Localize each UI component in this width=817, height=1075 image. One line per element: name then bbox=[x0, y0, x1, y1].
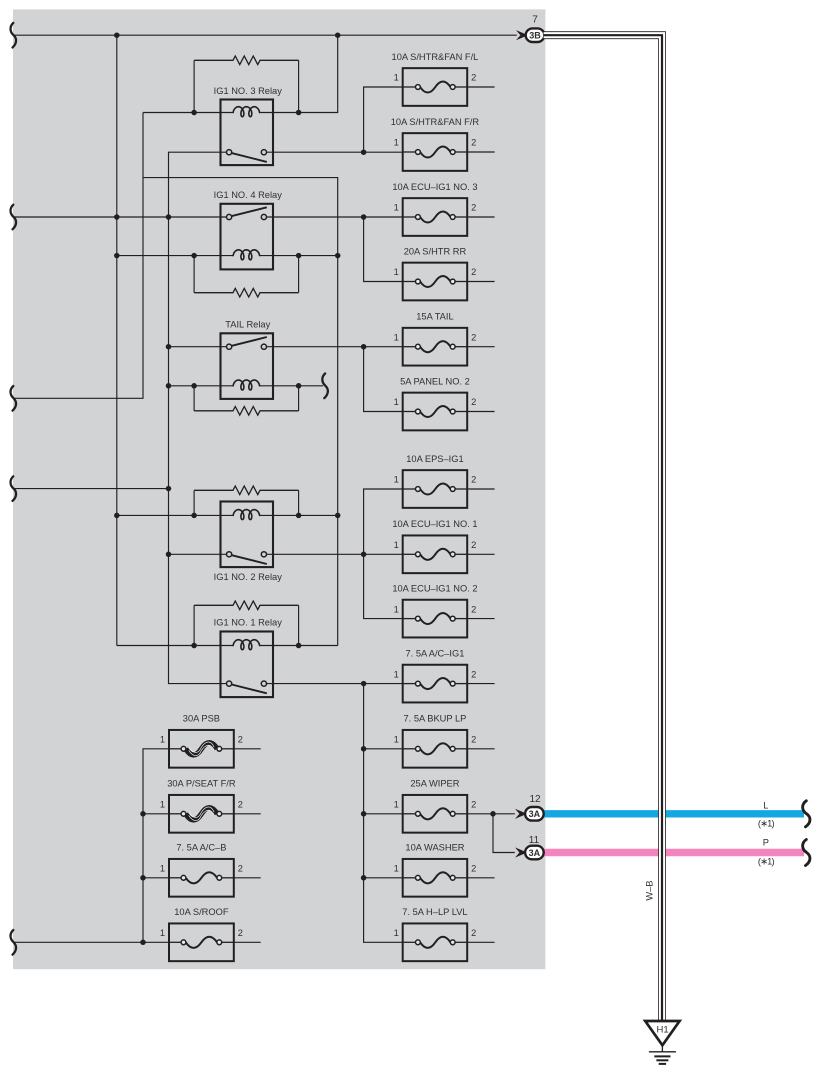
svg-text:1: 1 bbox=[394, 604, 399, 614]
break symbol TAIL coil right bbox=[322, 374, 328, 399]
wire fuse branch r3-r4 vertical bbox=[364, 217, 403, 282]
wire fuse branch r5-r6 vertical bbox=[364, 347, 403, 412]
junction relay1 coil row / resistor left leg bbox=[191, 643, 197, 649]
wire P (pink) from connector 11 bbox=[543, 849, 804, 856]
connector 3A pin 11 bbox=[515, 835, 544, 859]
svg-text:P: P bbox=[763, 837, 769, 847]
svg-text:1: 1 bbox=[160, 928, 165, 938]
junction bus3 / relay4 switch row bbox=[166, 214, 172, 220]
junction bus1 / relay4 coil row bbox=[114, 253, 120, 259]
svg-text:2: 2 bbox=[471, 604, 476, 614]
wire relay2 coil row bbox=[117, 514, 338, 516]
label (*1) under L bbox=[758, 819, 775, 829]
svg-text:2: 2 bbox=[471, 73, 476, 83]
svg-text:11: 11 bbox=[529, 835, 540, 846]
wire fuse pin1 stubs right column bbox=[364, 749, 403, 878]
fuse 7. 5A A/C–B bbox=[160, 843, 243, 897]
svg-text:7. 5A A/C–B: 7. 5A A/C–B bbox=[176, 843, 226, 853]
resistor above IG1 NO.3 relay bbox=[194, 56, 299, 113]
fuse 10A WASHER bbox=[394, 843, 477, 897]
junction relay4 switch row / fuse r3-r4 branch bbox=[361, 214, 367, 220]
wire fuse bus r10-r14 vertical bbox=[364, 684, 403, 943]
fuse 10A S/HTR&FAN F/R bbox=[391, 117, 480, 171]
junction TAIL switch row / fuse r5-r6 branch bbox=[361, 344, 367, 350]
wire TAIL switch row bbox=[169, 346, 403, 348]
fuse 20A S/HTR RR bbox=[394, 246, 477, 300]
wire relay4 switch row to fuses bbox=[266, 216, 402, 218]
svg-text:3A: 3A bbox=[529, 848, 541, 858]
wire left fuse bus vertical bbox=[143, 749, 169, 943]
wire bus2 from break to IG1 NO.3 relay coil row bbox=[14, 113, 143, 399]
wire relay2 resistor legs bbox=[194, 490, 299, 515]
junction relay4 coil row / resistor left leg bbox=[191, 253, 197, 259]
wire branch to connector 11 bbox=[493, 814, 515, 853]
svg-text:1: 1 bbox=[394, 735, 399, 745]
relay IG1 NO. 3 Relay bbox=[214, 86, 283, 165]
junction relay2 coil row / resistor right leg bbox=[296, 513, 302, 519]
svg-text:10A S/HTR&FAN F/L: 10A S/HTR&FAN F/L bbox=[392, 52, 479, 62]
fuse 7. 5A BKUP LP bbox=[394, 714, 477, 768]
fuse 30A P/SEAT F/R bbox=[160, 779, 243, 833]
svg-text:IG1 NO. 2 Relay: IG1 NO. 2 Relay bbox=[214, 572, 283, 582]
fuse 10A ECU–IG1 NO. 2 bbox=[392, 583, 477, 637]
fuse 7. 5A H–LP LVL bbox=[394, 907, 477, 961]
junction TAIL coil row / resistor right leg bbox=[296, 383, 302, 389]
break symbol bottom-left feed bbox=[11, 930, 17, 955]
fuse 10A EPS–IG1 bbox=[394, 454, 477, 508]
svg-text:(∗1): (∗1) bbox=[758, 819, 775, 829]
svg-text:1: 1 bbox=[160, 735, 165, 745]
wire bus3 vertical bbox=[169, 152, 227, 683]
connector 3A pin 12 bbox=[515, 794, 544, 821]
label W-B bbox=[644, 881, 654, 901]
junction relay3 coil row / resistor left leg bbox=[191, 110, 197, 116]
svg-text:1: 1 bbox=[394, 73, 399, 83]
svg-text:2: 2 bbox=[471, 540, 476, 550]
wire TAIL resistor legs bbox=[194, 386, 299, 411]
svg-text:30A PSB: 30A PSB bbox=[183, 714, 220, 724]
fuse 15A TAIL bbox=[394, 312, 477, 366]
wire branch y177.6 to center vertical bbox=[143, 178, 338, 646]
wire relay1 switch row bbox=[266, 683, 402, 685]
junction bus1 / relay2 coil row bbox=[114, 513, 120, 519]
svg-text:1: 1 bbox=[394, 864, 399, 874]
junction bus3 / relay2 switch row bbox=[166, 552, 172, 558]
junction fuse bus / WASHER bbox=[361, 875, 367, 881]
svg-text:2: 2 bbox=[471, 669, 476, 679]
label P bbox=[763, 837, 769, 847]
junction relay4 coil row / resistor right leg bbox=[296, 253, 302, 259]
svg-text:10A EPS–IG1: 10A EPS–IG1 bbox=[406, 454, 463, 464]
svg-text:10A S/ROOF: 10A S/ROOF bbox=[174, 907, 229, 917]
wire bus1 vertical bbox=[116, 35, 118, 645]
svg-text:1: 1 bbox=[394, 267, 399, 277]
junction center vertical / relay4 coil row bbox=[335, 253, 341, 259]
fuse 10A ECU–IG1 NO. 1 bbox=[392, 519, 477, 573]
svg-text:10A S/HTR&FAN F/R: 10A S/HTR&FAN F/R bbox=[391, 117, 480, 127]
svg-text:30A P/SEAT F/R: 30A P/SEAT F/R bbox=[167, 779, 236, 789]
wire bottom feed from break to 10A S/ROOF bbox=[14, 941, 169, 943]
junction bus1 / relay4 switch row bbox=[114, 214, 120, 220]
svg-text:15A TAIL: 15A TAIL bbox=[416, 312, 453, 322]
svg-text:3B: 3B bbox=[529, 31, 541, 41]
svg-text:IG1 NO. 3 Relay: IG1 NO. 3 Relay bbox=[214, 86, 283, 96]
svg-text:1: 1 bbox=[394, 475, 399, 485]
break symbol left relay2 feed bbox=[11, 476, 17, 501]
wire relay3 switch row to fuses bbox=[266, 151, 402, 153]
svg-text:7: 7 bbox=[532, 15, 538, 26]
wire fuse branch r7-r9 vertical bbox=[364, 489, 403, 619]
junction bus3 / break feed bbox=[166, 486, 172, 492]
junction block background bbox=[13, 9, 545, 969]
fuse 25A WIPER bbox=[394, 779, 477, 833]
svg-text:W–B: W–B bbox=[644, 881, 654, 901]
wire L (blue) from connector 12 bbox=[543, 810, 804, 817]
wire relay2 switch row bbox=[169, 553, 403, 555]
resistor below TAIL relay bbox=[194, 407, 299, 416]
junction center vertical / relay2 coil row bbox=[335, 513, 341, 519]
svg-text:2: 2 bbox=[471, 267, 476, 277]
junction fuse bus / WIPER bbox=[361, 811, 367, 817]
svg-text:1: 1 bbox=[394, 397, 399, 407]
fuse 30A PSB bbox=[160, 714, 243, 768]
svg-text:2: 2 bbox=[238, 864, 243, 874]
svg-text:7. 5A H–LP LVL: 7. 5A H–LP LVL bbox=[402, 907, 467, 917]
svg-text:L: L bbox=[763, 800, 768, 810]
svg-text:1: 1 bbox=[394, 203, 399, 213]
resistor above IG1 NO.1 relay bbox=[194, 601, 299, 610]
wire center vertical to top rail (relay3 coil feed) bbox=[299, 35, 338, 112]
junction fuse bus / BKUP LP bbox=[361, 746, 367, 752]
wire relay1 coil row bbox=[117, 645, 338, 647]
relay IG1 NO. 4 Relay bbox=[214, 190, 283, 269]
wire relay4 resistor legs bbox=[194, 256, 299, 293]
wire fuse pin2 stubs right column bbox=[467, 87, 494, 942]
fuse 10A S/HTR&FAN F/L bbox=[392, 52, 479, 106]
wire fuse branch r1-r2 vertical bbox=[364, 87, 403, 152]
svg-text:1: 1 bbox=[394, 800, 399, 810]
break symbol left at bus2 feed bbox=[11, 386, 17, 411]
ground H1 bbox=[645, 1021, 679, 1064]
svg-text:1: 1 bbox=[394, 928, 399, 938]
svg-text:1: 1 bbox=[394, 540, 399, 550]
svg-text:3A: 3A bbox=[529, 809, 541, 819]
junction WIPER output / connector branch bbox=[490, 811, 496, 817]
relay IG1 NO. 2 Relay bbox=[214, 502, 283, 582]
svg-text:2: 2 bbox=[471, 800, 476, 810]
fuse 5A PANEL NO. 2 bbox=[394, 376, 477, 430]
svg-text:1: 1 bbox=[160, 800, 165, 810]
resistor above IG1 NO.2 relay bbox=[194, 486, 299, 495]
svg-text:1: 1 bbox=[394, 332, 399, 342]
svg-text:IG1 NO. 1 Relay: IG1 NO. 1 Relay bbox=[214, 618, 283, 628]
wire left fuse pin1 stubs bbox=[143, 814, 169, 878]
svg-text:20A S/HTR RR: 20A S/HTR RR bbox=[404, 246, 467, 256]
junction relay3 switch row / fuse r1-r2 branch bbox=[361, 149, 367, 155]
svg-text:H1: H1 bbox=[657, 1024, 669, 1035]
fuse 10A ECU–IG1 NO. 3 bbox=[392, 182, 477, 236]
svg-text:2: 2 bbox=[471, 735, 476, 745]
label (*1) under P bbox=[758, 857, 775, 867]
resistor below IG1 NO.4 relay bbox=[194, 288, 299, 297]
wire relay4 switch row from break bbox=[14, 216, 227, 218]
break symbol left relay4 switch bbox=[11, 205, 17, 230]
connector 3B pin 7 bbox=[516, 15, 544, 42]
svg-text:IG1 NO. 4 Relay: IG1 NO. 4 Relay bbox=[214, 190, 283, 200]
wire TAIL coil row bbox=[169, 385, 324, 387]
junction center riser / top rail bbox=[335, 32, 341, 38]
wire relay4 coil row bbox=[117, 255, 338, 257]
svg-text:10A ECU–IG1 NO. 2: 10A ECU–IG1 NO. 2 bbox=[392, 583, 477, 593]
svg-text:25A WIPER: 25A WIPER bbox=[410, 779, 459, 789]
wire top supply rail bbox=[14, 34, 517, 36]
junction bus3 / TAIL coil row bbox=[166, 383, 172, 389]
svg-text:TAIL Relay: TAIL Relay bbox=[225, 319, 270, 329]
svg-text:2: 2 bbox=[238, 735, 243, 745]
wire relay2 feed from break bbox=[14, 488, 169, 490]
svg-text:5A PANEL NO. 2: 5A PANEL NO. 2 bbox=[400, 376, 470, 386]
wire relay1 resistor legs bbox=[194, 605, 299, 645]
svg-text:10A WASHER: 10A WASHER bbox=[405, 843, 464, 853]
svg-text:10A ECU–IG1 NO. 3: 10A ECU–IG1 NO. 3 bbox=[392, 182, 477, 192]
svg-text:1: 1 bbox=[394, 138, 399, 148]
junction relay3 coil row / resistor right leg bbox=[296, 110, 302, 116]
junction relay1 switch row / fuse bus bbox=[361, 681, 367, 687]
junction relay1 coil row / resistor right leg bbox=[296, 643, 302, 649]
relay TAIL Relay bbox=[221, 319, 274, 399]
svg-text:2: 2 bbox=[238, 928, 243, 938]
junction TAIL coil row / resistor left leg bbox=[191, 383, 197, 389]
junction left fuse bus / S-ROOF feed bbox=[140, 940, 146, 946]
junction relay2 switch row / fuse r7-r9 branch bbox=[361, 552, 367, 558]
svg-text:12: 12 bbox=[529, 794, 541, 805]
break symbol top-left supply bbox=[11, 23, 17, 48]
label L bbox=[763, 800, 768, 810]
junction bus3 / TAIL switch row bbox=[166, 344, 172, 350]
wire relay3 coil row bbox=[143, 112, 299, 114]
svg-text:2: 2 bbox=[471, 138, 476, 148]
wire W-B to ground (double line) bbox=[544, 35, 662, 1021]
wire 25A WIPER output to connector 12 bbox=[467, 813, 515, 815]
junction bus1 / top rail bbox=[114, 32, 120, 38]
svg-text:2: 2 bbox=[471, 397, 476, 407]
svg-text:2: 2 bbox=[238, 800, 243, 810]
svg-text:2: 2 bbox=[471, 928, 476, 938]
svg-text:2: 2 bbox=[471, 475, 476, 485]
svg-text:1: 1 bbox=[394, 669, 399, 679]
junction left fuse bus / A-C-B bbox=[140, 875, 146, 881]
relay IG1 NO. 1 Relay bbox=[214, 618, 283, 697]
svg-text:10A ECU–IG1 NO. 1: 10A ECU–IG1 NO. 1 bbox=[392, 519, 477, 529]
svg-text:7. 5A A/C–IG1: 7. 5A A/C–IG1 bbox=[405, 648, 464, 658]
fuse 10A S/ROOF bbox=[160, 907, 243, 961]
fuse 7. 5A A/C–IG1 bbox=[394, 648, 477, 702]
break symbol right end of L wire bbox=[803, 801, 810, 827]
wire left fuse pin2 stubs bbox=[234, 749, 261, 943]
svg-text:2: 2 bbox=[471, 332, 476, 342]
junction left fuse bus / P-SEAT bbox=[140, 811, 146, 817]
svg-text:(∗1): (∗1) bbox=[758, 857, 775, 867]
svg-text:7. 5A BKUP LP: 7. 5A BKUP LP bbox=[404, 714, 467, 724]
svg-text:2: 2 bbox=[471, 203, 476, 213]
junction relay2 coil row / resistor left leg bbox=[191, 513, 197, 519]
break symbol right end of P wire bbox=[803, 840, 810, 866]
svg-text:2: 2 bbox=[471, 864, 476, 874]
svg-text:1: 1 bbox=[160, 864, 165, 874]
